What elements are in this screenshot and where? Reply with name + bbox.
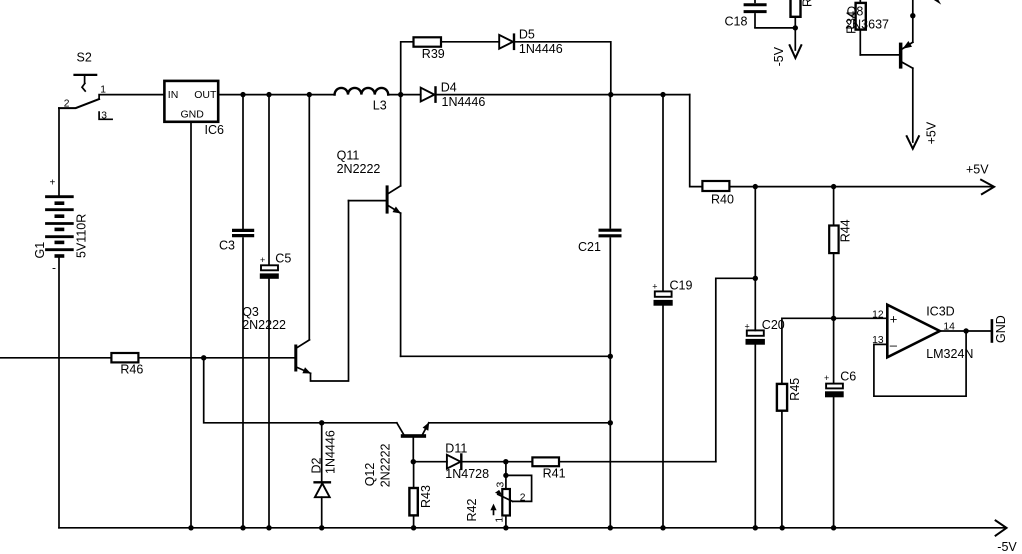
wire IC6 GND pin down to bottom rail (190, 122, 192, 528)
wire C18 to -5V node (755, 27, 795, 29)
svg-text:1N4446: 1N4446 (324, 430, 338, 474)
svg-text:R45: R45 (788, 378, 802, 401)
svg-text:2: 2 (64, 98, 70, 109)
svg-text:1: 1 (100, 85, 106, 96)
diode D4 (421, 87, 436, 101)
svg-text:Q11: Q11 (337, 148, 360, 162)
svg-text:D11: D11 (445, 441, 467, 455)
wire Q12 emitter line to C21 line (429, 422, 611, 424)
potentiometer R42 (490, 462, 531, 528)
wire R39 to D5 (441, 41, 499, 43)
resistor R34 (856, 0, 866, 55)
svg-text:2N2222: 2N2222 (242, 318, 286, 332)
GND bar symbol (991, 320, 994, 341)
svg-text:OUT: OUT (194, 89, 217, 101)
battery G1 (45, 197, 74, 256)
svg-text:R44: R44 (839, 219, 853, 242)
resistor R46 (111, 353, 138, 362)
svg-text:2N2222: 2N2222 (379, 443, 393, 487)
resistor R41 (532, 457, 559, 466)
svg-text:+5V: +5V (966, 162, 989, 176)
node junction dots (188, 13, 969, 531)
op-amp U IC3D (887, 305, 940, 358)
svg-text:IC6: IC6 (205, 123, 225, 137)
svg-text:R41: R41 (543, 467, 566, 481)
svg-text:3: 3 (101, 111, 107, 122)
svg-text:D2: D2 (310, 457, 324, 473)
transistor Q8 (860, 0, 913, 142)
wire main top D4 to corner (436, 94, 690, 96)
diode D2 (315, 423, 330, 528)
diode D11 (447, 455, 461, 469)
wire R40 to +5V arrow (729, 186, 992, 188)
svg-text:C6: C6 (840, 369, 856, 383)
wire R45 top to op-amp pin12 (782, 318, 887, 384)
svg-text:R46: R46 (120, 362, 143, 376)
wire node A branch down from R46 line (204, 358, 397, 423)
svg-text:C19: C19 (670, 279, 693, 293)
svg-text:2N2222: 2N2222 (337, 162, 381, 176)
-5V arrow bottom right (996, 521, 1007, 536)
wire corner down to R40 (690, 95, 703, 187)
wire battery minus down to bottom rail (58, 258, 60, 528)
wire D5 to C21 riser (514, 42, 611, 95)
capacitor C20 (746, 330, 764, 527)
wire R46 to Q3 base bar (138, 357, 294, 359)
wire branch to R41 riser (716, 278, 756, 461)
capacitor C6 (826, 318, 844, 528)
+5V down arrow Q8 (907, 136, 919, 149)
svg-text:R33: R33 (800, 0, 814, 7)
wire main top rail from switch pin1 to IC6 (99, 95, 164, 100)
capacitor C18 (744, 0, 767, 28)
svg-text:D4: D4 (441, 81, 457, 95)
svg-text:R40: R40 (711, 192, 734, 206)
wire Q11 emitter to C21 line (401, 355, 611, 357)
wire R46 line to Q3 base (0, 357, 111, 359)
svg-text:IC3D: IC3D (926, 304, 954, 318)
wire R39 branch riser (401, 42, 414, 95)
svg-text:R39: R39 (422, 47, 445, 61)
svg-text:IN: IN (168, 89, 179, 101)
capacitor C3 (232, 95, 254, 528)
svg-text:L3: L3 (373, 99, 387, 113)
wire bottom rail (59, 527, 1005, 529)
svg-text:+: + (50, 178, 56, 189)
svg-text:C21: C21 (578, 240, 601, 254)
wire main top from IC6 OUT to L3 (218, 94, 334, 96)
capacitor C21 (599, 95, 622, 528)
svg-text:+: + (652, 282, 657, 292)
svg-text:Q3: Q3 (242, 305, 259, 319)
svg-text:+5V: +5V (925, 121, 939, 144)
svg-text:R42: R42 (465, 499, 479, 522)
svg-text:1N4446: 1N4446 (442, 95, 486, 109)
svg-text:1N4446: 1N4446 (519, 42, 563, 56)
svg-text:Q12: Q12 (363, 463, 377, 487)
svg-text:C5: C5 (275, 252, 291, 266)
svg-text:-5V: -5V (997, 540, 1017, 554)
svg-text:G1: G1 (33, 242, 47, 259)
svg-text:1N4728: 1N4728 (445, 467, 489, 481)
wire switch pin2 down to battery (58, 108, 60, 195)
resistor R43 (409, 462, 417, 528)
svg-text:GND: GND (181, 108, 205, 120)
svg-text:GND: GND (994, 315, 1008, 343)
svg-text:+: + (824, 373, 829, 383)
diode D5 (499, 35, 514, 49)
stray arrow top right (934, 0, 941, 5)
+5V arrow (981, 180, 994, 194)
transistor Q12 (397, 422, 429, 462)
svg-text:3: 3 (496, 482, 507, 488)
inductor L3 (335, 88, 389, 95)
svg-text:1: 1 (495, 517, 506, 523)
svg-text:C3: C3 (219, 239, 235, 253)
wire D11 to R41 (461, 461, 532, 463)
svg-text:-5V: -5V (772, 46, 786, 66)
svg-text:S2: S2 (77, 51, 92, 65)
wire op-amp feedback loop pin13 (874, 331, 966, 396)
svg-text:D5: D5 (519, 28, 535, 42)
wire R41 to riser (559, 461, 716, 463)
capacitor C19 (654, 95, 672, 528)
svg-text:5V110R: 5V110R (75, 214, 89, 258)
capacitor C5 (260, 95, 278, 528)
svg-text:2N3637: 2N3637 (845, 17, 889, 31)
resistor R45 (777, 384, 787, 528)
resistor R39 (414, 37, 442, 46)
resistor R40 (702, 181, 729, 191)
wire Q12 base to D11 (413, 461, 447, 463)
svg-text:+: + (890, 312, 898, 327)
wire op-amp output to GND (940, 330, 992, 332)
svg-text:C18: C18 (725, 15, 748, 29)
resistor R44 (829, 187, 838, 319)
resistor R33 partial (791, 0, 801, 28)
svg-text:12: 12 (872, 309, 884, 320)
svg-text:+: + (260, 255, 265, 265)
transistor Q11 (349, 95, 402, 357)
wire L3 to D4 (388, 94, 421, 96)
svg-text:+: + (745, 322, 750, 332)
regulator IC6 (164, 81, 218, 122)
svg-text:-: - (52, 261, 56, 275)
switch S2 (59, 75, 112, 119)
wire Q3 collector riser (308, 95, 310, 340)
wire R40 junction down to C20 (754, 187, 756, 331)
transistor Q3 (294, 201, 348, 381)
svg-text:–: – (890, 338, 898, 353)
-5V down arrow top (790, 28, 802, 58)
svg-text:2: 2 (520, 492, 526, 503)
svg-text:R43: R43 (419, 485, 433, 508)
